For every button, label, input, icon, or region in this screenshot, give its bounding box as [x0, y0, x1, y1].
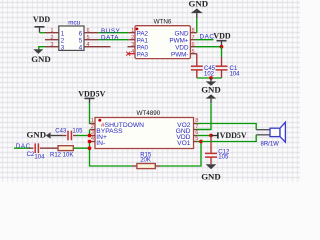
- resistor R12: [50, 146, 73, 159]
- speaker LS1 pins: [256, 130, 270, 135]
- svg-text:WTN6: WTN6: [154, 18, 172, 25]
- mcu pin 3 stub: [45, 46, 59, 48]
- WTN6 pin 4 stub (red): [128, 53, 135, 55]
- wire DAC to C2: [14, 147, 29, 149]
- wire VDD5V down to pin1: [90, 103, 96, 124]
- WTN6 right pin stubs 8,7,6,5: [190, 32, 196, 34]
- WT4890 right stubs: [194, 123, 198, 125]
- svg-text:3: 3: [50, 42, 53, 48]
- ground GND (top): [189, 0, 209, 18]
- svg-text:VDD: VDD: [213, 31, 231, 40]
- ground GND (bottom right): [201, 164, 221, 181]
- svg-text:GND: GND: [189, 0, 209, 9]
- wire BYPASS riser: [89, 130, 91, 136]
- wire C1 bottom: [221, 70, 223, 78]
- speaker LS1: [261, 122, 286, 147]
- svg-text:102: 102: [204, 71, 215, 77]
- wire pin6 to VDD: [195, 46, 222, 48]
- wire C12 down: [210, 157, 212, 164]
- svg-text:WT4890: WT4890: [137, 110, 161, 117]
- svg-text:DAC: DAC: [200, 34, 215, 41]
- mcu pin 6 stub: [84, 32, 99, 34]
- svg-text:4: 4: [87, 42, 90, 48]
- capacitor C43: [55, 129, 83, 141]
- svg-text:5: 5: [192, 49, 195, 55]
- svg-text:C43: C43: [55, 129, 67, 135]
- svg-text:PA1: PA1: [137, 37, 149, 44]
- svg-text:IN-: IN-: [96, 140, 105, 147]
- power port VDD (right): [213, 31, 231, 46]
- ground GND (left, C43): [27, 129, 62, 139]
- power port VDD (top left): [33, 15, 51, 33]
- svg-text:3: 3: [61, 45, 65, 52]
- svg-text:DATA: DATA: [101, 34, 119, 41]
- svg-text:105: 105: [72, 129, 83, 135]
- svg-text:1: 1: [61, 31, 65, 38]
- wire C45 bottom: [196, 70, 198, 78]
- svg-text:7: 7: [192, 35, 195, 41]
- svg-text:GND: GND: [27, 129, 47, 139]
- svg-text:3: 3: [131, 42, 134, 48]
- svg-text:2: 2: [50, 35, 53, 41]
- svg-text:6: 6: [192, 42, 195, 48]
- junction node caps/GND: [209, 76, 213, 80]
- capacitor C45: [191, 66, 216, 77]
- no-ERC X marker on pin 4: [126, 52, 130, 56]
- svg-text:PA2: PA2: [137, 30, 149, 37]
- svg-text:8R/1W: 8R/1W: [261, 142, 280, 148]
- junction node IN+/BYPASS/C43: [88, 134, 92, 138]
- svg-text:PA3: PA3: [137, 51, 149, 58]
- power port VDD5V (right): [211, 131, 247, 140]
- wire R15 to VO1 riser: [160, 142, 201, 167]
- svg-text:GND: GND: [201, 85, 221, 95]
- wire net DAC (top): [195, 39, 214, 41]
- svg-text:PA0: PA0: [137, 44, 149, 51]
- mcu pin 1 stub: [45, 32, 59, 34]
- wire pin5 down to C45: [196, 54, 198, 66]
- wire caps to GND: [197, 77, 222, 79]
- capacitor C2: [27, 143, 45, 160]
- wire pin8 to GND: [196, 18, 198, 32]
- wire VDD to mcu pin1: [40, 32, 46, 34]
- mcu pin 5 stub: [84, 39, 99, 41]
- svg-text:VDD5V: VDD5V: [220, 131, 247, 140]
- junction node VDD/C12: [209, 134, 213, 138]
- component U2 WTN6: [135, 18, 190, 58]
- wire net BUSY: [99, 32, 129, 34]
- svg-text:VDD5V: VDD5V: [78, 90, 105, 99]
- component U1 mcu: [59, 19, 84, 50]
- svg-text:GND: GND: [201, 171, 221, 181]
- svg-text:1: 1: [131, 28, 134, 34]
- svg-text:20K: 20K: [140, 158, 151, 164]
- ground GND (below mcu): [31, 49, 51, 64]
- wire C43 to IN+: [77, 135, 90, 137]
- svg-text:5: 5: [87, 35, 90, 41]
- svg-text:GND: GND: [31, 54, 51, 64]
- svg-text:PWM-: PWM-: [171, 51, 189, 58]
- svg-text:104: 104: [230, 71, 241, 77]
- wire R12 to IN- riser: [73, 147, 89, 149]
- WTN6 pin1 marker dot: [136, 28, 139, 31]
- svg-text:105: 105: [218, 155, 229, 161]
- svg-text:GND: GND: [175, 30, 189, 37]
- wire VO1 to junction: [197, 141, 201, 143]
- svg-text:8: 8: [192, 28, 195, 34]
- svg-text:PWM+: PWM+: [169, 37, 188, 44]
- wire VO2 to speaker: [197, 124, 256, 130]
- wire GND to U3 GND pin: [197, 103, 211, 129]
- svg-text:VDD: VDD: [33, 15, 51, 24]
- svg-text:R12 10K: R12 10K: [50, 152, 73, 158]
- ground GND (middle, up arrow): [206, 94, 217, 103]
- wire IN- into pin: [89, 141, 91, 143]
- svg-text:2: 2: [61, 38, 65, 45]
- junction node VDD/C1: [220, 45, 224, 49]
- WTN6 left pin stubs 1,2,3: [128, 32, 135, 34]
- wire VDD junction down to C12: [210, 136, 212, 154]
- component U3 WT4890: [95, 110, 194, 148]
- capacitor C1: [216, 66, 241, 77]
- WT4890 left stubs: [90, 123, 95, 125]
- svg-text:1: 1: [50, 28, 53, 34]
- svg-text:2: 2: [131, 35, 134, 41]
- junction node R12/riser: [88, 146, 92, 150]
- resistor R15: [132, 153, 160, 169]
- svg-text:6: 6: [87, 28, 90, 34]
- svg-text:mcu: mcu: [68, 19, 80, 26]
- mcu pin 2 stub: [45, 39, 59, 41]
- wire VO1 to speaker: [201, 135, 256, 142]
- wire VDD pin to port: [197, 135, 211, 137]
- wire mcu pin3 to GND: [39, 47, 45, 50]
- wire net DATA: [99, 39, 129, 41]
- wire IN- riser down to R15: [90, 142, 133, 167]
- svg-text:VO1: VO1: [177, 140, 191, 147]
- wire VDD junction down to C1: [221, 47, 223, 57]
- junction node VO1/R15: [199, 140, 203, 144]
- ground GND (middle, down arrow): [201, 78, 221, 95]
- svg-text:104: 104: [34, 154, 45, 160]
- wire GND pin: [197, 129, 211, 131]
- mcu pin 4 wire (stub, dead end): [84, 46, 111, 48]
- wire C2 to R12: [40, 147, 58, 149]
- svg-text:VDD: VDD: [175, 44, 189, 51]
- capacitor C12: [205, 149, 230, 160]
- power port VDD5V (left): [78, 90, 105, 103]
- svg-text:4: 4: [131, 49, 134, 55]
- WT4890 pin1 marker dot: [98, 119, 101, 122]
- junction node IN-/riser: [88, 140, 92, 144]
